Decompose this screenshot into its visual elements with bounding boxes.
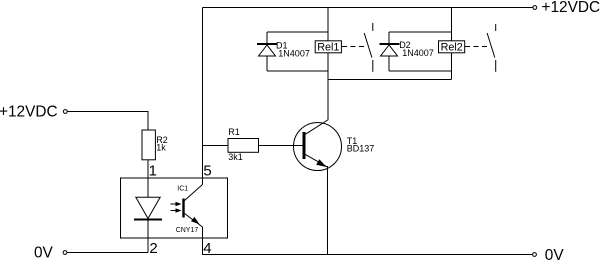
node 0V terminal right xyxy=(533,253,537,257)
opto transistor emitter diagonal xyxy=(185,214,203,228)
opto transistor base bar xyxy=(182,199,184,218)
relay contact S1 xyxy=(372,23,374,31)
svg-text:1N4007: 1N4007 xyxy=(278,48,310,58)
svg-text:R1: R1 xyxy=(228,127,240,137)
opto transistor collector diagonal xyxy=(185,185,203,201)
opto emitter arrow xyxy=(191,217,200,224)
wire IC1 pin 2 to 0V xyxy=(147,221,149,253)
opto light arrow upper xyxy=(171,203,177,205)
wire 0V left terminal xyxy=(67,252,148,254)
svg-text:0V: 0V xyxy=(34,245,54,262)
svg-text:5: 5 xyxy=(203,163,211,180)
node +12VDC terminal left xyxy=(63,110,67,114)
svg-text:CNY17: CNY17 xyxy=(176,227,199,234)
svg-text:4: 4 xyxy=(203,240,211,257)
svg-text:1k: 1k xyxy=(156,142,166,152)
wire R2 to IC1 pin 1 xyxy=(147,160,149,198)
wire D1 cathode stub xyxy=(266,32,268,43)
wire Rel2 branch stub from rail xyxy=(451,8,453,41)
svg-text:2: 2 xyxy=(149,240,157,257)
wire IC1 pin 4 to 0V rail xyxy=(203,227,533,255)
wire D2 anode stub xyxy=(388,56,390,71)
wire D1 loop top xyxy=(267,31,328,33)
svg-text:+12VDC: +12VDC xyxy=(542,0,600,16)
svg-text:3k1: 3k1 xyxy=(228,152,243,162)
svg-text:1: 1 xyxy=(149,163,157,180)
opto LED cathode bar xyxy=(134,219,162,221)
diode D1 xyxy=(257,43,277,45)
transistor T1 collector diagonal xyxy=(306,120,329,135)
wire +12VDC left terminal to R2 xyxy=(67,112,148,131)
transistor T1 emitter arrow xyxy=(316,159,326,167)
opto light arrow lower xyxy=(171,210,177,212)
svg-text:Rel2: Rel2 xyxy=(441,42,463,54)
svg-text:IC1: IC1 xyxy=(177,185,188,192)
wire D2 cathode stub xyxy=(388,32,390,43)
optocoupler IC1 box xyxy=(121,178,228,238)
relay coil Rel1 xyxy=(315,41,341,53)
wire top +12VDC rail xyxy=(203,7,534,9)
diode D2 xyxy=(380,43,400,45)
wire Rel1 to T1 collector xyxy=(327,53,329,120)
svg-text:+12VDC: +12VDC xyxy=(0,103,58,120)
svg-text:Rel1: Rel1 xyxy=(317,42,339,54)
wire R1 to T1 base xyxy=(259,145,303,147)
wire D2 loop top xyxy=(389,31,452,33)
wire Rel2 return horizontal to collector node xyxy=(328,79,452,81)
wire D2 loop bottom xyxy=(389,70,452,72)
relay coil Rel2 xyxy=(439,41,465,53)
transistor T1 base bar xyxy=(303,132,306,159)
transistor T1 emitter diagonal xyxy=(306,155,328,167)
wire Rel1 branch stub from rail xyxy=(327,8,329,41)
node 0V terminal left xyxy=(63,251,67,255)
wire D1 loop bottom xyxy=(267,70,328,72)
wire T1 emitter down to 0V rail xyxy=(327,166,329,255)
opto LED triangle xyxy=(136,197,160,218)
wire D1 anode stub xyxy=(266,56,268,71)
wire left vertical from rail to IC1 pin 5 xyxy=(202,8,204,185)
wire Rel2 return down xyxy=(451,53,453,80)
svg-text:BD137: BD137 xyxy=(347,144,375,154)
svg-text:1N4007: 1N4007 xyxy=(402,48,434,58)
dashed link Rel1 to contact xyxy=(342,46,366,48)
resistor R1 xyxy=(228,139,259,153)
transistor T1 circle xyxy=(294,123,342,171)
node +12VDC terminal right xyxy=(533,6,537,10)
wire R1 left xyxy=(203,145,229,147)
resistor R2 xyxy=(142,130,155,160)
svg-text:0V: 0V xyxy=(545,247,565,264)
dashed link Rel2 to contact xyxy=(465,46,489,48)
relay contact S2 xyxy=(495,24,497,31)
